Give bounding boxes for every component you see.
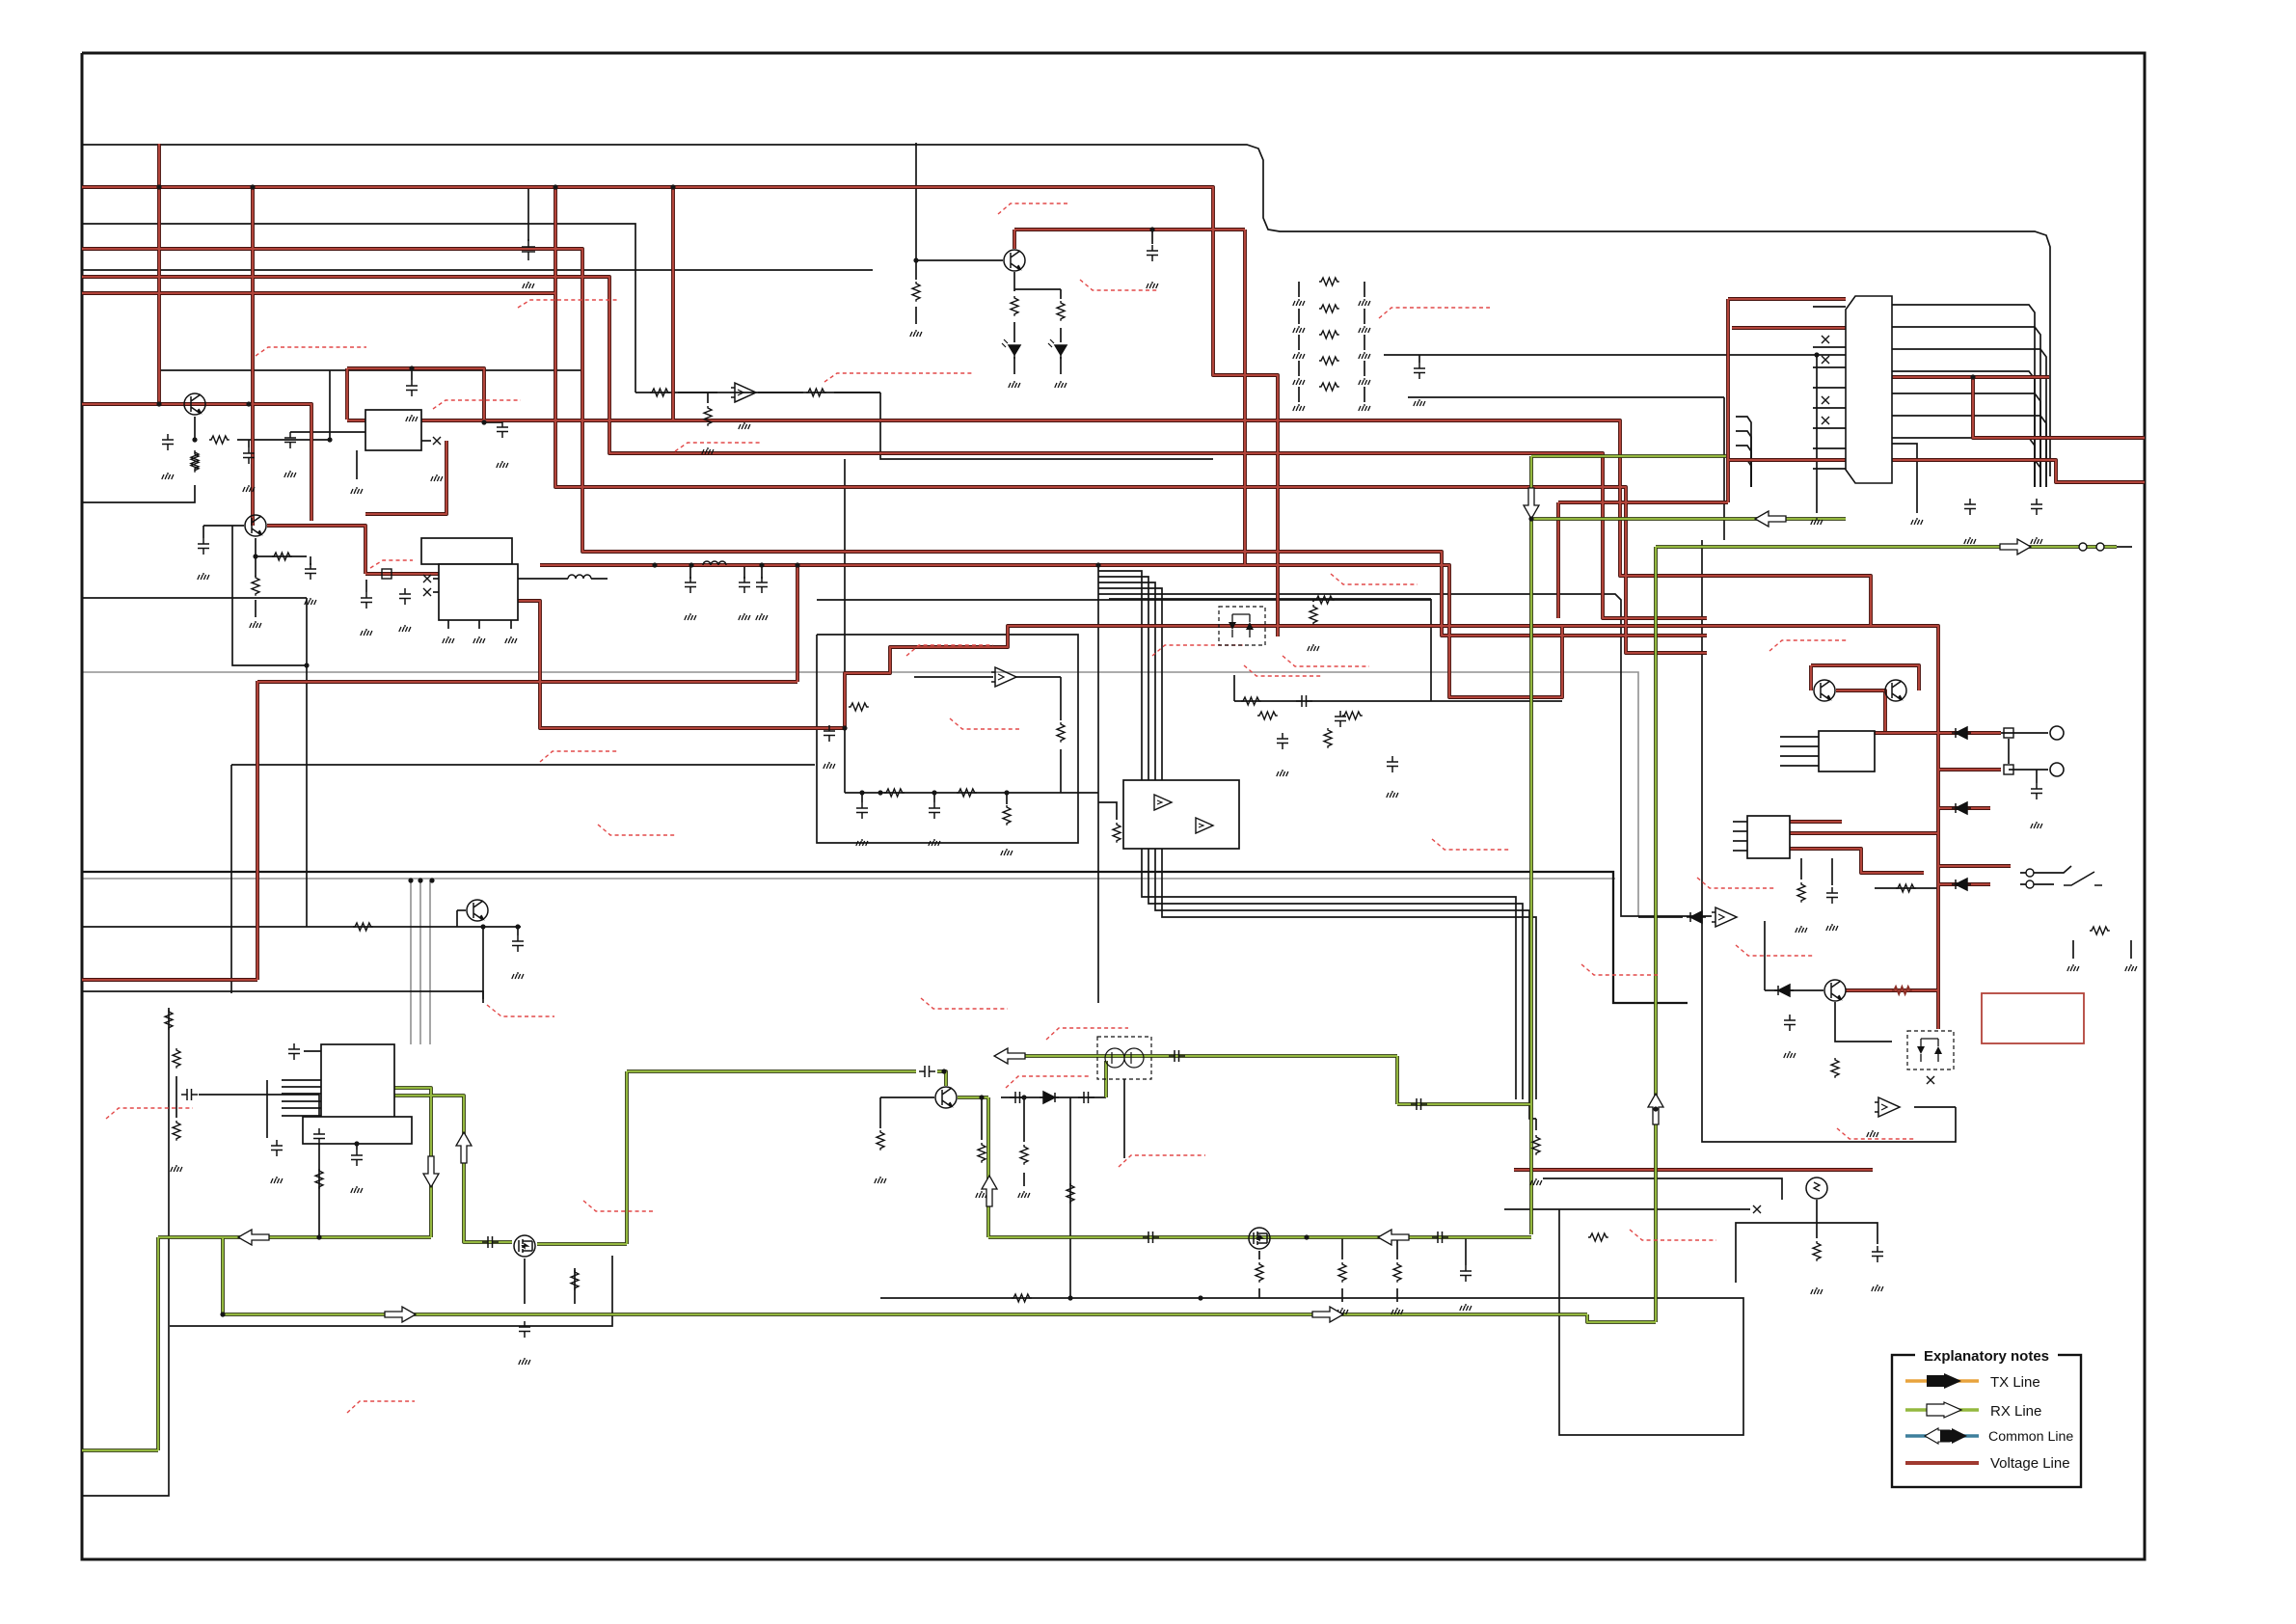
svg-text:TX Line: TX Line — [1990, 1374, 2040, 1391]
svg-text:RX Line: RX Line — [1990, 1403, 2041, 1420]
svg-text:Common Line: Common Line — [1988, 1429, 2073, 1445]
svg-text:Explanatory notes: Explanatory notes — [1924, 1348, 2049, 1365]
svg-text:Voltage Line: Voltage Line — [1990, 1455, 2070, 1472]
